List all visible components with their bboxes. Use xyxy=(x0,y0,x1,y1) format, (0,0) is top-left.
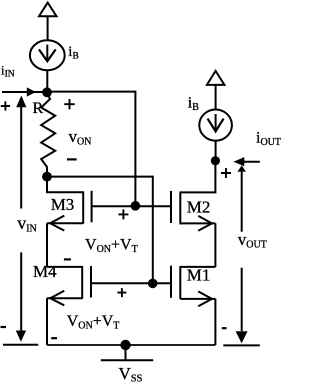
svg-text:M4: M4 xyxy=(33,262,57,281)
svg-text:M1: M1 xyxy=(187,266,211,285)
svg-text:M2: M2 xyxy=(187,198,211,217)
svg-text:M3: M3 xyxy=(51,195,75,214)
svg-text:R: R xyxy=(33,100,44,117)
svg-text:VON+VT: VON+VT xyxy=(85,237,138,256)
svg-text:VON+VT: VON+VT xyxy=(67,313,120,332)
